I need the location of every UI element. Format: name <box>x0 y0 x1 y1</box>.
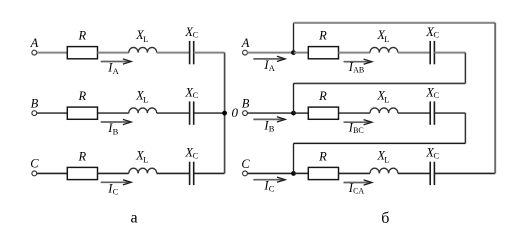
svg-text:C: C <box>434 30 440 40</box>
svg-text:б: б <box>381 210 389 227</box>
svg-text:R: R <box>77 149 86 163</box>
svg-text:L: L <box>143 34 148 44</box>
svg-text:A: A <box>269 63 276 73</box>
svg-text:0: 0 <box>232 105 239 120</box>
svg-text:L: L <box>143 94 148 104</box>
svg-text:A: A <box>30 36 39 50</box>
svg-text:A: A <box>241 36 250 50</box>
svg-text:C: C <box>193 90 199 100</box>
svg-text:R: R <box>77 29 86 43</box>
svg-text:B: B <box>31 96 39 110</box>
svg-text:BC: BC <box>353 126 364 135</box>
svg-text:B: B <box>269 123 275 133</box>
svg-text:C: C <box>193 30 199 40</box>
svg-text:L: L <box>384 94 389 104</box>
svg-text:CA: CA <box>353 187 364 196</box>
svg-text:R: R <box>318 29 327 43</box>
svg-text:C: C <box>269 184 275 194</box>
svg-text:C: C <box>193 151 199 161</box>
svg-text:C: C <box>113 187 119 197</box>
svg-text:L: L <box>384 155 389 165</box>
svg-text:R: R <box>77 89 86 103</box>
svg-text:L: L <box>384 34 389 44</box>
svg-text:а: а <box>130 210 137 227</box>
svg-text:B: B <box>242 97 250 111</box>
svg-text:B: B <box>113 126 119 136</box>
svg-text:C: C <box>30 157 39 171</box>
svg-text:R: R <box>318 149 327 163</box>
svg-text:C: C <box>241 157 250 171</box>
svg-text:R: R <box>318 89 327 103</box>
svg-text:L: L <box>143 155 148 165</box>
svg-text:AB: AB <box>353 66 364 75</box>
svg-text:C: C <box>434 151 440 161</box>
svg-text:C: C <box>434 90 440 100</box>
svg-text:A: A <box>113 66 120 76</box>
